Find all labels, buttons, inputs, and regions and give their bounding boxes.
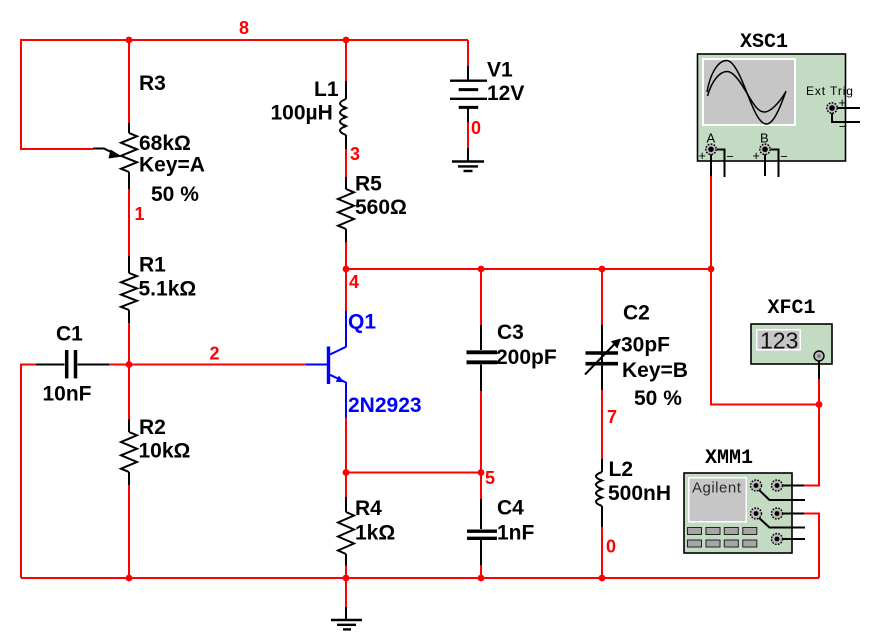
svg-text:−: − bbox=[781, 150, 788, 164]
svg-text:A: A bbox=[707, 131, 716, 146]
svg-text:1nF: 1nF bbox=[497, 522, 535, 545]
svg-text:50 %: 50 % bbox=[151, 183, 199, 206]
svg-text:3: 3 bbox=[350, 144, 360, 164]
svg-text:Key=A: Key=A bbox=[139, 154, 205, 177]
svg-text:Agilent: Agilent bbox=[692, 480, 742, 497]
svg-text:R1: R1 bbox=[139, 254, 166, 277]
svg-text:+: + bbox=[699, 149, 706, 163]
svg-text:R2: R2 bbox=[139, 416, 166, 439]
svg-text:4: 4 bbox=[349, 272, 359, 292]
svg-text:1: 1 bbox=[135, 204, 145, 224]
svg-text:L1: L1 bbox=[314, 78, 339, 101]
svg-text:8: 8 bbox=[239, 18, 249, 38]
svg-text:L2: L2 bbox=[609, 458, 634, 481]
svg-text:V1: V1 bbox=[487, 59, 513, 82]
svg-text:1kΩ: 1kΩ bbox=[355, 522, 395, 545]
svg-text:100µH: 100µH bbox=[271, 102, 333, 125]
svg-text:Q1: Q1 bbox=[348, 311, 376, 334]
svg-text:C1: C1 bbox=[56, 323, 83, 346]
svg-text:Key=B: Key=B bbox=[622, 359, 688, 382]
svg-text:+: + bbox=[753, 149, 760, 163]
svg-text:XSC1: XSC1 bbox=[740, 31, 788, 54]
svg-text:2N2923: 2N2923 bbox=[348, 394, 422, 417]
svg-text:5.1kΩ: 5.1kΩ bbox=[139, 278, 197, 301]
svg-text:C4: C4 bbox=[497, 497, 524, 520]
svg-text:Ext Trig: Ext Trig bbox=[806, 84, 854, 98]
svg-text:50 %: 50 % bbox=[634, 387, 682, 410]
svg-text:XFC1: XFC1 bbox=[768, 297, 816, 320]
svg-text:0: 0 bbox=[606, 537, 616, 557]
svg-text:12V: 12V bbox=[487, 82, 524, 105]
svg-text:R5: R5 bbox=[355, 173, 382, 196]
svg-text:30pF: 30pF bbox=[621, 334, 670, 357]
svg-text:0: 0 bbox=[471, 118, 481, 138]
svg-text:C2: C2 bbox=[623, 302, 650, 325]
svg-text:10nF: 10nF bbox=[43, 383, 92, 406]
svg-text:B: B bbox=[760, 131, 769, 146]
svg-text:R4: R4 bbox=[355, 497, 382, 520]
svg-text:7: 7 bbox=[607, 407, 617, 427]
svg-text:2: 2 bbox=[210, 344, 220, 364]
svg-text:−: − bbox=[727, 150, 734, 164]
svg-text:+: + bbox=[839, 96, 846, 110]
svg-text:XMM1: XMM1 bbox=[705, 447, 753, 470]
svg-text:200pF: 200pF bbox=[496, 346, 557, 369]
svg-text:5: 5 bbox=[485, 468, 495, 488]
svg-text:C3: C3 bbox=[497, 321, 524, 344]
svg-text:10kΩ: 10kΩ bbox=[139, 440, 191, 463]
svg-text:−: − bbox=[839, 120, 846, 134]
svg-text:R3: R3 bbox=[139, 72, 166, 95]
svg-text:560Ω: 560Ω bbox=[355, 196, 407, 219]
svg-text:500nH: 500nH bbox=[608, 482, 671, 505]
svg-text:68kΩ: 68kΩ bbox=[139, 132, 191, 155]
svg-text:123: 123 bbox=[760, 328, 798, 354]
